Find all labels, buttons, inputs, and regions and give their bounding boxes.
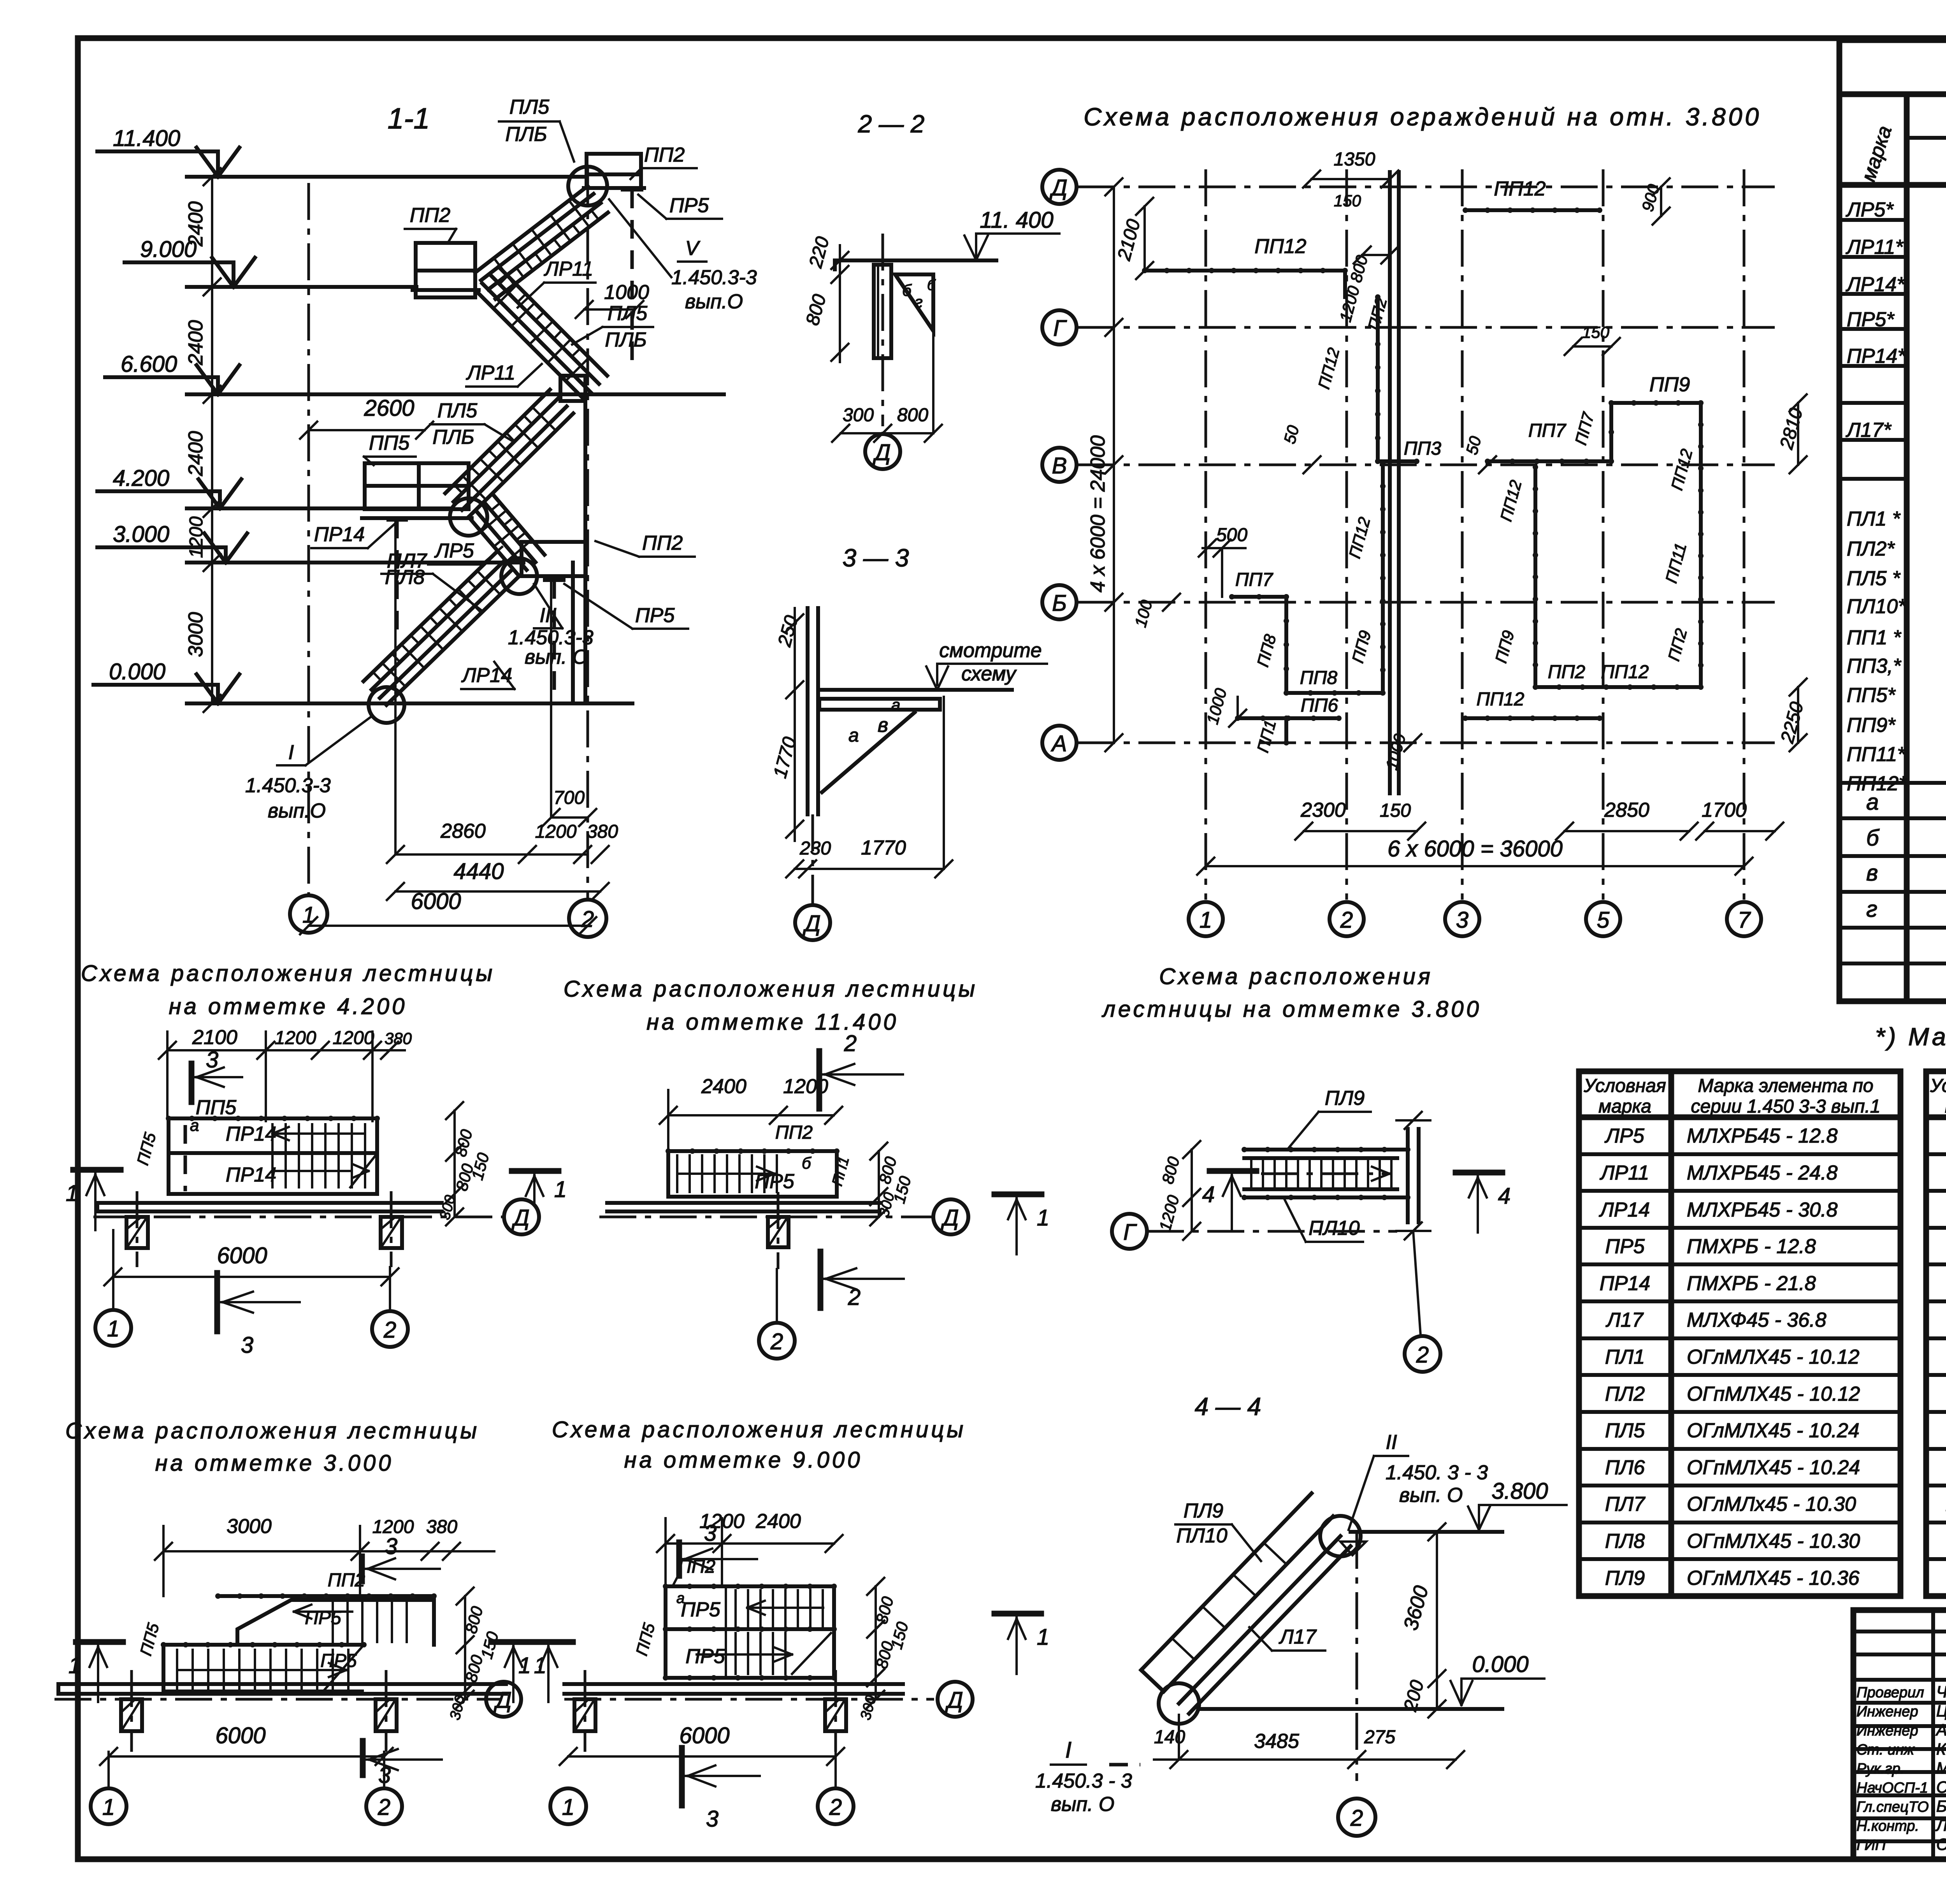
- svg-text:Инженер: Инженер: [1856, 1704, 1918, 1720]
- scheme 3.000 diag cut: [323, 1645, 364, 1691]
- svg-text:г: г: [1866, 897, 1878, 922]
- svg-text:380: 380: [426, 1517, 457, 1537]
- railing PP8 horizontal: [1286, 691, 1383, 695]
- level line 0.000: [187, 701, 632, 705]
- scheme 3.800 arrow: [1261, 1173, 1389, 1175]
- svg-text:Рук.гр.: Рук.гр.: [1856, 1761, 1904, 1777]
- svg-text:1200: 1200: [186, 516, 207, 558]
- svg-text:Острикевский: Острикевский: [1936, 1835, 1946, 1853]
- svg-text:Гл.спецТО: Гл.спецТО: [1856, 1799, 1929, 1815]
- scheme 4.200 axis D line: [93, 1216, 502, 1218]
- scheme 3.800 bubble 2: [1413, 1231, 1421, 1335]
- svg-text:1: 1: [1200, 907, 1212, 933]
- section 3-3 platform top line: [819, 688, 1012, 692]
- svg-text:ОГпМЛХ45 - 10.24: ОГпМЛХ45 - 10.24: [1687, 1456, 1860, 1479]
- grid line 2 axis: [587, 167, 589, 900]
- small conversion table left: [1579, 1071, 1900, 1596]
- svg-text:1200: 1200: [275, 1028, 316, 1048]
- railing PP7 at B line: [1232, 595, 1286, 599]
- svg-text:4: 4: [1498, 1183, 1510, 1209]
- svg-text:ПП2: ПП2: [410, 204, 450, 227]
- scheme 4.200 stair treads upper: [271, 1124, 274, 1152]
- svg-text:схему: схему: [961, 663, 1017, 685]
- scheme 3.000 floor beam: [58, 1682, 506, 1686]
- svg-text:ПЛ10: ПЛ10: [1176, 1524, 1227, 1547]
- scheme 3.000 columns hatched: [121, 1699, 142, 1731]
- scheme 9.000 floor beam: [564, 1682, 903, 1686]
- svg-text:Схема расположения лестницы: Схема расположения лестницы: [65, 1418, 479, 1443]
- scheme 3.800 left dims: [1191, 1150, 1193, 1231]
- svg-text:ПЛ1: ПЛ1: [1605, 1346, 1645, 1368]
- scheme 9.000 left cell PR5 box: [725, 1586, 727, 1678]
- svg-text:1700: 1700: [1702, 799, 1747, 821]
- svg-text:Цимбалист: Цимбалист: [1936, 1702, 1946, 1720]
- svg-text:ОГлМЛХ45 - 10.36: ОГлМЛХ45 - 10.36: [1687, 1567, 1860, 1589]
- svg-text:ОГлМЛХ45 - 10.24: ОГлМЛХ45 - 10.24: [1687, 1419, 1860, 1442]
- svg-text:3.000: 3.000: [113, 522, 169, 547]
- section 4-4 bubble 2: [1338, 1799, 1375, 1836]
- svg-text:Н.контр.: Н.контр.: [1856, 1818, 1919, 1834]
- railing PP1 vertical: [1284, 718, 1288, 743]
- svg-text:2860: 2860: [440, 820, 486, 842]
- svg-text:11. 400: 11. 400: [980, 207, 1053, 233]
- platform PP5 at 4.200: [365, 463, 469, 509]
- svg-text:Схема расположения лестницы: Схема расположения лестницы: [81, 961, 495, 986]
- svg-text:Андреева: Андреева: [1935, 1721, 1946, 1739]
- scheme 3.800 right end double verticals: [1406, 1129, 1410, 1222]
- scheme 11.400 treads: [676, 1155, 678, 1192]
- svg-text:I: I: [1065, 1737, 1071, 1763]
- svg-text:3: 3: [706, 1806, 718, 1832]
- svg-text:марка: марка: [1598, 1096, 1651, 1117]
- svg-text:ПП9: ПП9: [1649, 373, 1690, 396]
- svg-text:ПЛ9: ПЛ9: [1325, 1087, 1365, 1109]
- scheme 3.000 right dims: [464, 1596, 466, 1699]
- svg-text:ПЛ5: ПЛ5: [509, 96, 550, 118]
- railing PR5 dashed lower: [553, 580, 556, 703]
- svg-text:ПР14*: ПР14*: [1847, 345, 1906, 367]
- svg-text:на отметке 4.200: на отметке 4.200: [169, 994, 407, 1019]
- svg-text:7: 7: [1738, 907, 1751, 933]
- svg-text:3: 3: [241, 1333, 253, 1358]
- svg-text:ПР5: ПР5: [305, 1608, 341, 1628]
- svg-text:*) Марки условные, смотрите: *) Марки условные, смотрите таблицу: [1875, 1023, 1946, 1051]
- svg-text:3000: 3000: [227, 1515, 272, 1538]
- scheme 9.000 top rail: [666, 1584, 834, 1588]
- svg-text:Г: Г: [1123, 1220, 1137, 1245]
- section 4-4 ladder stringers: [1179, 1536, 1340, 1704]
- svg-text:а: а: [190, 1116, 199, 1134]
- svg-text:380: 380: [587, 821, 618, 842]
- svg-text:ПР5*: ПР5*: [1847, 308, 1895, 331]
- svg-text:б: б: [802, 1154, 811, 1172]
- svg-text:ПР14: ПР14: [226, 1164, 276, 1186]
- grid bubble 1: [290, 895, 327, 933]
- scheme 3.000 upper treads: [332, 1601, 334, 1642]
- scheme 4.200 flag 1 left: [73, 1167, 121, 1173]
- svg-text:800: 800: [897, 405, 928, 425]
- scheme 4.200 stair treads lower: [271, 1155, 274, 1187]
- junction circle at 0.000: [369, 687, 404, 723]
- svg-text:2400: 2400: [184, 320, 207, 366]
- section 4-4 bottom circle: [1159, 1683, 1199, 1724]
- table body row lines: [1839, 218, 1907, 222]
- svg-text:ПП5: ПП5: [196, 1096, 237, 1119]
- scheme 9.000 right dims: [875, 1586, 877, 1699]
- svg-text:2: 2: [844, 1031, 857, 1056]
- landing PL5 PL6 at 6.600: [560, 376, 585, 401]
- svg-text:ПЛ9: ПЛ9: [1605, 1567, 1645, 1589]
- svg-text:ПЛ5: ПЛ5: [437, 399, 478, 422]
- svg-text:1: 1: [66, 1181, 78, 1206]
- section 3-3 channel beam: [819, 699, 940, 710]
- svg-text:ПР14: ПР14: [226, 1123, 276, 1145]
- svg-text:1-1: 1-1: [388, 102, 430, 135]
- scheme 11.400 flag 2 top: [817, 1051, 822, 1109]
- scheme 9.000 lower arrow and diag: [697, 1653, 792, 1656]
- svg-text:1200: 1200: [535, 821, 577, 842]
- svg-text:ПП3,*: ПП3,*: [1847, 655, 1902, 677]
- svg-text:3000: 3000: [184, 612, 207, 657]
- svg-text:а: а: [891, 696, 900, 714]
- svg-text:Д: Д: [945, 1688, 963, 1713]
- scheme 4.200 plan outline: [169, 1118, 377, 1194]
- svg-text:на отметке 3.000: на отметке 3.000: [155, 1450, 394, 1476]
- svg-text:Г: Г: [1053, 316, 1067, 341]
- svg-text:ПЛ8: ПЛ8: [385, 566, 425, 589]
- level line 3.000: [187, 561, 523, 564]
- svg-text:ПП12: ПП12: [1254, 235, 1306, 258]
- svg-text:0.000: 0.000: [1472, 1652, 1528, 1677]
- svg-text:ПМХРБ - 21.8: ПМХРБ - 21.8: [1687, 1272, 1816, 1295]
- svg-text:6000: 6000: [217, 1243, 267, 1268]
- svg-text:1.450.3-3: 1.450.3-3: [245, 774, 331, 797]
- svg-text:ПП1 *: ПП1 *: [1847, 626, 1902, 649]
- svg-text:Д: Д: [803, 911, 821, 936]
- svg-text:ЛР14*: ЛР14*: [1846, 273, 1905, 296]
- svg-text:ПП12: ПП12: [1601, 662, 1649, 682]
- svg-text:серии 1.450 3-3 вып.1: серии 1.450 3-3 вып.1: [1691, 1096, 1880, 1117]
- svg-text:1: 1: [302, 902, 315, 928]
- svg-text:1: 1: [1037, 1205, 1049, 1231]
- svg-text:Д: Д: [873, 440, 891, 465]
- section 4-4 walkway end rungs: [1141, 1670, 1164, 1691]
- scheme 9.000 columns: [574, 1699, 595, 1731]
- railing PR5 dashed upper: [631, 190, 634, 366]
- plan bottom dim 6x6000: [1206, 865, 1744, 867]
- scheme 3.800 rungs: [1250, 1158, 1252, 1189]
- svg-text:ПР14: ПР14: [1600, 1272, 1650, 1295]
- svg-text:в: в: [1866, 860, 1878, 886]
- svg-text:3: 3: [704, 1521, 717, 1546]
- svg-text:на отметке 11.400: на отметке 11.400: [646, 1009, 899, 1035]
- svg-text:II: II: [1386, 1431, 1397, 1454]
- scheme 11.400 flag 1 right: [994, 1192, 1041, 1197]
- right block lower PP12 rail: [1465, 716, 1600, 720]
- svg-text:2: 2: [770, 1329, 783, 1354]
- svg-text:ПП5: ПП5: [369, 432, 410, 454]
- svg-text:ПЛ8: ПЛ8: [1605, 1530, 1645, 1552]
- level line 11.400: [187, 175, 587, 179]
- svg-text:ГИП: ГИП: [1856, 1837, 1886, 1853]
- svg-text:2400: 2400: [701, 1075, 746, 1098]
- scheme 4.200 top railing PP5: [169, 1116, 377, 1120]
- scheme 3.000 upper flight outline: [237, 1600, 434, 1645]
- svg-text:3: 3: [206, 1047, 218, 1072]
- svg-text:1770: 1770: [861, 837, 906, 859]
- svg-text:150: 150: [1380, 800, 1411, 821]
- svg-text:ПЛ6: ПЛ6: [1605, 1456, 1645, 1479]
- svg-text:ПП12: ПП12: [1477, 689, 1524, 710]
- svg-text:ПР5: ПР5: [635, 604, 675, 627]
- svg-text:б: б: [902, 281, 912, 299]
- scheme 3.000 axis D: [54, 1698, 502, 1701]
- svg-text:Схема расположения: Схема расположения: [1159, 964, 1433, 989]
- railing PP12 vertical along well: [1376, 297, 1380, 461]
- section 2-2 axis dashdot: [882, 234, 884, 426]
- svg-text:2: 2: [378, 1795, 390, 1820]
- svg-text:6.600: 6.600: [121, 352, 177, 377]
- svg-text:ОГпМЛХ45 - 10.12: ОГпМЛХ45 - 10.12: [1687, 1383, 1860, 1405]
- svg-text:Луценко: Луценко: [1935, 1816, 1946, 1834]
- svg-text:Марка элемента по: Марка элемента по: [1698, 1076, 1874, 1096]
- stair flight LR11 4.200-6.600: [469, 413, 573, 517]
- svg-text:вып.О: вып.О: [268, 800, 326, 822]
- table Vedomost elementov: [1839, 40, 1946, 1001]
- right block railing PP9 top: [1611, 401, 1701, 405]
- svg-text:6000: 6000: [411, 889, 461, 914]
- svg-text:б: б: [1866, 825, 1880, 851]
- section 2-2 bracket channel: [874, 265, 891, 358]
- section 4-4 axis dashdot: [1356, 1532, 1358, 1781]
- svg-text:вып. О: вып. О: [525, 646, 588, 668]
- svg-text:V: V: [685, 237, 701, 260]
- svg-text:лестницы на отметке 3.800: лестницы на отметке 3.800: [1101, 997, 1482, 1022]
- svg-text:2400: 2400: [184, 431, 207, 476]
- level line 6.600: [187, 392, 724, 396]
- scheme 4.200 right dims: [453, 1111, 456, 1217]
- svg-text:2400: 2400: [184, 201, 207, 247]
- svg-text:2100: 2100: [192, 1026, 237, 1049]
- scheme 3.000 upper arrow: [294, 1610, 352, 1613]
- svg-text:ПП7: ПП7: [1528, 420, 1567, 441]
- svg-text:230: 230: [799, 838, 831, 859]
- svg-text:МЛХРБ45 - 24.8: МЛХРБ45 - 24.8: [1687, 1162, 1838, 1184]
- scheme 3.000 flag 1 left: [76, 1639, 123, 1645]
- plan column bubbles: [1189, 902, 1223, 936]
- scheme 4.200 flag 3 top: [189, 1064, 195, 1102]
- svg-text:г: г: [915, 293, 923, 311]
- section 4-4 dim 3600: [1436, 1532, 1438, 1709]
- svg-text:380: 380: [385, 1029, 412, 1048]
- scheme 11.400 axis D line: [599, 1216, 934, 1218]
- junction circle at 11.400: [568, 167, 607, 206]
- svg-text:ПЛ7: ПЛ7: [1605, 1493, 1646, 1515]
- svg-text:ПЛБ: ПЛБ: [605, 329, 646, 351]
- svg-text:1: 1: [107, 1316, 119, 1341]
- scheme 11.400 bubbles: [759, 1323, 795, 1359]
- svg-text:2600: 2600: [364, 396, 414, 421]
- svg-text:Д: Д: [941, 1205, 959, 1231]
- svg-text:300: 300: [843, 405, 874, 425]
- svg-text:5: 5: [1597, 907, 1610, 933]
- svg-text:1200: 1200: [333, 1028, 374, 1048]
- scheme 4.200 columns hatched: [126, 1217, 148, 1248]
- svg-text:ПЛБ: ПЛБ: [505, 123, 547, 146]
- svg-text:ПЛ2*: ПЛ2*: [1847, 538, 1895, 560]
- svg-text:Условная: Условная: [1583, 1076, 1666, 1096]
- svg-text:1: 1: [518, 1653, 531, 1678]
- railing PP8 vertical: [1284, 597, 1288, 693]
- svg-text:ЛР11: ЛР11: [544, 258, 593, 280]
- railing PP6: [1238, 716, 1339, 720]
- level line 9.000: [187, 285, 416, 289]
- svg-text:ЛР11: ЛР11: [466, 362, 515, 384]
- right stair stringer verticals: [571, 563, 575, 703]
- svg-text:ОГлМЛх45 - 10.30: ОГлМЛх45 - 10.30: [1687, 1493, 1856, 1515]
- scheme 3.000 bubbles: [91, 1788, 126, 1824]
- svg-text:Схема расположения ограждени: Схема расположения ограждений на отн. 3.…: [1084, 103, 1762, 131]
- section 2-2 bubble D: [882, 433, 884, 433]
- scheme 11.400 arrow: [679, 1173, 775, 1175]
- scheme 9.000 upper treads: [734, 1590, 737, 1626]
- stair flight LR11 6.600-9.000: [475, 290, 584, 399]
- svg-text:1350: 1350: [1334, 149, 1375, 170]
- title block frame: [1853, 1610, 1946, 1859]
- svg-text:вып.О: вып.О: [685, 290, 743, 313]
- svg-text:ПП2: ПП2: [1548, 662, 1585, 682]
- svg-text:ПЛ2: ПЛ2: [1605, 1383, 1645, 1405]
- scheme 4.200 flag 3 bottom: [214, 1273, 220, 1331]
- svg-text:ПП2: ПП2: [644, 144, 685, 166]
- svg-text:А: А: [1051, 731, 1067, 756]
- scheme 3.000 lower flight: [162, 1645, 165, 1691]
- svg-text:вып. О: вып. О: [1399, 1484, 1463, 1507]
- svg-text:ПЛ5: ПЛ5: [1605, 1419, 1645, 1442]
- svg-text:Л17: Л17: [1279, 1626, 1317, 1648]
- railing PP12 top right near D: [1465, 208, 1600, 212]
- section 3-3 vertical dim right: [943, 697, 945, 868]
- svg-text:3485: 3485: [1254, 1730, 1300, 1753]
- scheme 9.000 flag 1 left: [526, 1639, 573, 1645]
- scheme 3.000 mid dash line: [163, 1643, 364, 1647]
- svg-text:ПЛ5: ПЛ5: [608, 302, 648, 325]
- svg-text:1: 1: [102, 1795, 115, 1820]
- svg-text:в: в: [878, 714, 888, 737]
- grid bubble 2: [569, 900, 606, 937]
- landing PL7 PL8 at 3.000: [522, 542, 586, 576]
- section 4-4 top circle: [1320, 1516, 1361, 1556]
- scheme 9.000 plan outline: [666, 1586, 834, 1678]
- svg-text:ПЛ9: ПЛ9: [1184, 1500, 1223, 1522]
- scheme 11.400 right dims: [878, 1151, 880, 1217]
- svg-text:Д: Д: [494, 1688, 512, 1713]
- svg-text:150: 150: [1334, 192, 1361, 210]
- platform PP2 at 11.400: [587, 154, 641, 188]
- svg-text:4440: 4440: [453, 859, 504, 884]
- svg-text:2: 2: [1350, 1806, 1363, 1831]
- svg-text:3: 3: [385, 1534, 397, 1559]
- scheme 4.200 bubbles: [95, 1310, 131, 1346]
- svg-text:а: а: [1866, 789, 1879, 815]
- svg-text:ПП2: ПП2: [775, 1122, 813, 1143]
- svg-text:ЛР11*: ЛР11*: [1846, 236, 1904, 258]
- level line 4.200: [187, 506, 451, 510]
- junction circle at 4.200: [450, 498, 487, 536]
- svg-text:Д: Д: [511, 1205, 530, 1231]
- svg-text:Л17*: Л17*: [1846, 419, 1892, 441]
- scheme 9.000 bubbles: [550, 1788, 586, 1824]
- svg-text:150: 150: [1582, 323, 1610, 341]
- scheme 11.400 column hatched: [768, 1217, 789, 1247]
- svg-text:1: 1: [562, 1795, 574, 1820]
- svg-text:ПП6: ПП6: [1301, 695, 1338, 716]
- svg-text:4.200: 4.200: [113, 466, 169, 491]
- svg-text:0.000: 0.000: [109, 659, 165, 684]
- svg-text:1.450. 3 - 3: 1.450. 3 - 3: [1386, 1461, 1488, 1484]
- svg-text:ПЛ10*: ПЛ10*: [1847, 595, 1906, 618]
- svg-text:4 х 6000 = 24000: 4 х 6000 = 24000: [1087, 435, 1109, 592]
- svg-text:ЛР5: ЛР5: [434, 540, 474, 562]
- right block verticals: [1533, 467, 1537, 687]
- svg-text:ПЛ10: ПЛ10: [1308, 1217, 1359, 1239]
- svg-text:ПЛБ: ПЛБ: [432, 426, 474, 448]
- scheme 3.800 flag 4 left: [1210, 1168, 1256, 1174]
- svg-text:а: а: [848, 725, 859, 746]
- svg-text:ЛР11: ЛР11: [1600, 1162, 1649, 1184]
- svg-text:ПП11*: ПП11*: [1847, 743, 1906, 766]
- svg-text:ПМХРБ - 12.8: ПМХРБ - 12.8: [1687, 1235, 1816, 1258]
- svg-text:Проверил: Проверил: [1856, 1684, 1924, 1701]
- svg-text:НачОСП-1: НачОСП-1: [1856, 1780, 1928, 1796]
- svg-text:вып. О: вып. О: [1051, 1793, 1114, 1816]
- svg-text:500: 500: [1216, 525, 1247, 545]
- svg-text:МЛХРБ45 - 30.8: МЛХРБ45 - 30.8: [1687, 1199, 1838, 1221]
- svg-text:ПП2: ПП2: [642, 532, 683, 554]
- dim 2100: [1143, 206, 1146, 271]
- svg-text:6 х 6000 = 36000: 6 х 6000 = 36000: [1387, 836, 1563, 861]
- scheme 4.200 floor beam: [97, 1201, 442, 1205]
- plan row bubbles: [1042, 170, 1077, 204]
- svg-text:700: 700: [553, 788, 585, 808]
- svg-text:275: 275: [1364, 1727, 1395, 1748]
- stair flight LR14 0.000-3.000: [386, 576, 519, 705]
- section 2-2 platform line: [835, 258, 996, 262]
- svg-text:Условная: Условная: [1930, 1076, 1946, 1096]
- svg-text:2: 2: [581, 907, 594, 932]
- svg-text:Боярченко: Боярченко: [1936, 1797, 1946, 1815]
- svg-text:ПР5: ПР5: [685, 1645, 725, 1668]
- svg-text:6000: 6000: [215, 1723, 265, 1748]
- svg-text:Д: Д: [1049, 175, 1068, 200]
- svg-text:140: 140: [1154, 1727, 1185, 1748]
- svg-text:2: 2: [1416, 1342, 1429, 1368]
- svg-text:б: б: [927, 277, 936, 294]
- svg-text:Схема расположения лестницы: Схема расположения лестницы: [552, 1417, 966, 1442]
- plan stair well double lines: [1388, 172, 1392, 793]
- svg-text:ПР14: ПР14: [314, 523, 365, 546]
- svg-text:1: 1: [1037, 1624, 1049, 1650]
- scheme 9.000 lower treads: [734, 1633, 737, 1674]
- svg-text:11.400: 11.400: [113, 126, 180, 151]
- svg-text:3 — 3: 3 — 3: [843, 544, 909, 572]
- scheme 3.800 G axis: [1147, 1230, 1397, 1233]
- section 3-3 bubble D: [795, 905, 830, 940]
- plan horizontal grid lines: [1078, 186, 1775, 188]
- svg-text:ПЛ1 *: ПЛ1 *: [1847, 508, 1901, 530]
- svg-text:Инженер: Инженер: [1856, 1723, 1918, 1739]
- plan vertical grid lines: [1205, 169, 1207, 900]
